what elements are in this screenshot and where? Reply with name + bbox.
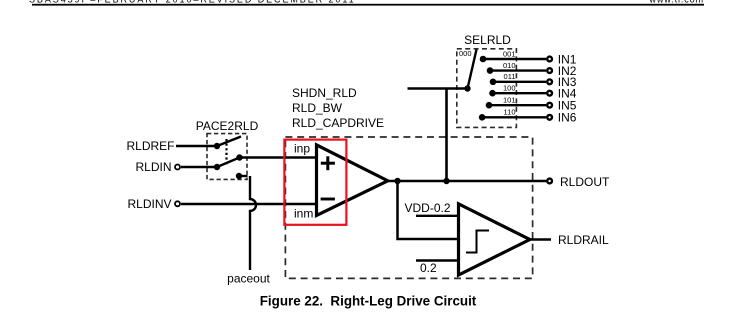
svg-text:RLDOUT: RLDOUT [560, 175, 610, 189]
svg-text:RLD_CAPDRIVE: RLD_CAPDRIVE [292, 116, 384, 130]
svg-text:RLD_BW: RLD_BW [292, 101, 343, 115]
svg-text:VDD-0.2: VDD-0.2 [405, 201, 451, 215]
svg-text:000: 000 [459, 49, 472, 58]
svg-text:001: 001 [503, 49, 516, 58]
svg-text:RLDRAIL: RLDRAIL [558, 233, 609, 247]
svg-text:paceout: paceout [227, 272, 270, 286]
svg-text:SELRLD: SELRLD [464, 33, 511, 47]
svg-text:inm: inm [294, 207, 313, 221]
svg-text:Figure 22. Right-Leg Drive Ci: Figure 22. Right-Leg Drive Circuit [260, 293, 477, 308]
svg-text:RLDIN: RLDIN [135, 160, 171, 174]
svg-text:SHDN_RLD: SHDN_RLD [292, 86, 357, 100]
svg-text:IN6: IN6 [558, 111, 577, 125]
svg-text:inp: inp [294, 141, 310, 155]
svg-text:101: 101 [503, 96, 516, 105]
svg-text:RLDINV: RLDINV [127, 197, 171, 211]
svg-text:010: 010 [503, 61, 516, 70]
svg-text:100: 100 [503, 84, 516, 93]
svg-text:RLDREF: RLDREF [126, 139, 174, 153]
svg-text:110: 110 [504, 108, 516, 117]
svg-text:0.2: 0.2 [420, 261, 437, 275]
svg-text:PACE2RLD: PACE2RLD [196, 119, 259, 133]
svg-text:011: 011 [504, 72, 516, 81]
